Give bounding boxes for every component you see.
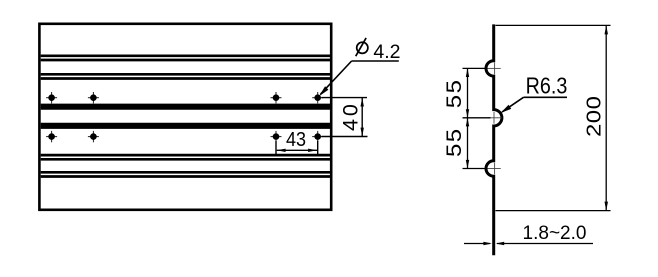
svg-text:1.8~2.0: 1.8~2.0	[523, 223, 587, 244]
svg-text:R6.3: R6.3	[526, 72, 568, 99]
svg-text:40: 40	[339, 101, 363, 131]
svg-text:55: 55	[442, 79, 465, 109]
svg-text:43: 43	[286, 129, 306, 151]
svg-text:200: 200	[582, 96, 605, 138]
svg-text:55: 55	[442, 127, 465, 157]
svg-text:4.2: 4.2	[373, 41, 400, 63]
